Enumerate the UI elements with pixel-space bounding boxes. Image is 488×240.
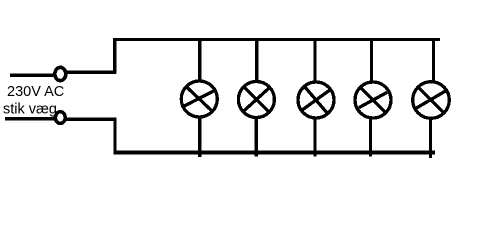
terminal phase (top) <box>55 67 66 80</box>
svg-text:230V AC: 230V AC <box>7 84 64 100</box>
lamp L4 <box>355 82 391 118</box>
svg-text:stik væg.: stik væg. <box>3 102 61 118</box>
wire lamp 1 top lead <box>198 40 201 84</box>
wire lamp 5 bottom lead <box>429 115 432 158</box>
wire lamp 5 top lead <box>432 40 435 84</box>
wire top bus <box>113 38 440 41</box>
wire neutral lead left of terminal <box>5 117 55 120</box>
wire bottom bus <box>113 151 435 155</box>
wire lamp 3 top lead <box>313 40 316 84</box>
wire lamp 2 bottom lead <box>255 115 258 157</box>
wire lamp 4 top lead <box>370 40 373 84</box>
wire neutral lead right of terminal <box>66 118 117 121</box>
lamp L1 <box>181 81 217 117</box>
wire lamp 4 bottom lead <box>369 115 372 157</box>
lamp L2 <box>238 82 274 118</box>
wire phase lead left of terminal <box>10 74 55 77</box>
lamp L5 <box>413 82 450 119</box>
wire phase lead right of terminal <box>67 71 116 74</box>
wire lamp 2 top lead <box>255 40 258 84</box>
wire lamp 1 bottom lead <box>198 115 201 157</box>
wire left riser from top bus to phase terminal <box>113 38 116 74</box>
lamp L3 <box>298 82 334 118</box>
wire left drop from neutral terminal to bottom bus <box>113 118 116 154</box>
terminal neutral (bottom) <box>55 112 65 124</box>
wire lamp 3 bottom lead <box>313 115 316 157</box>
